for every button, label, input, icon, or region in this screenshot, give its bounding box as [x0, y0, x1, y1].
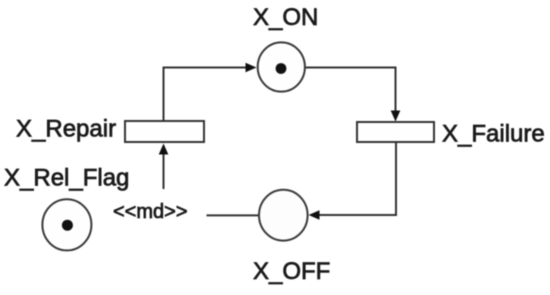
token in X_Rel_Flag: [62, 220, 73, 231]
wire X_OFF to X_Repair (vertical segment): [163, 152, 165, 189]
svg-text:X_Rel_Flag: X_Rel_Flag: [4, 164, 129, 191]
place X_Rel_Flag: [42, 199, 91, 250]
svg-text:X_ON: X_ON: [253, 4, 318, 31]
arrowhead into X_OFF: [309, 210, 320, 220]
wire X_ON to X_Failure: [306, 68, 396, 113]
svg-text:<<md>>: <<md>>: [113, 201, 188, 223]
arrowhead into X_ON: [246, 63, 257, 73]
arrowhead into X_Repair: [159, 144, 169, 155]
wire X_OFF to X_Repair (horizontal segment): [207, 214, 260, 216]
token in X_ON: [276, 63, 287, 74]
svg-text:X_Repair: X_Repair: [16, 116, 116, 143]
place X_OFF: [259, 190, 308, 241]
place X_ON: [258, 42, 305, 91]
svg-text:X_OFF: X_OFF: [253, 258, 330, 285]
wire X_Failure to X_OFF: [318, 142, 396, 215]
transition X_Repair: [125, 121, 204, 142]
transition X_Failure: [357, 122, 434, 142]
svg-text:X_Failure: X_Failure: [442, 121, 545, 148]
arrowhead into X_Failure: [391, 111, 401, 122]
wire X_Repair to X_ON: [164, 68, 248, 121]
